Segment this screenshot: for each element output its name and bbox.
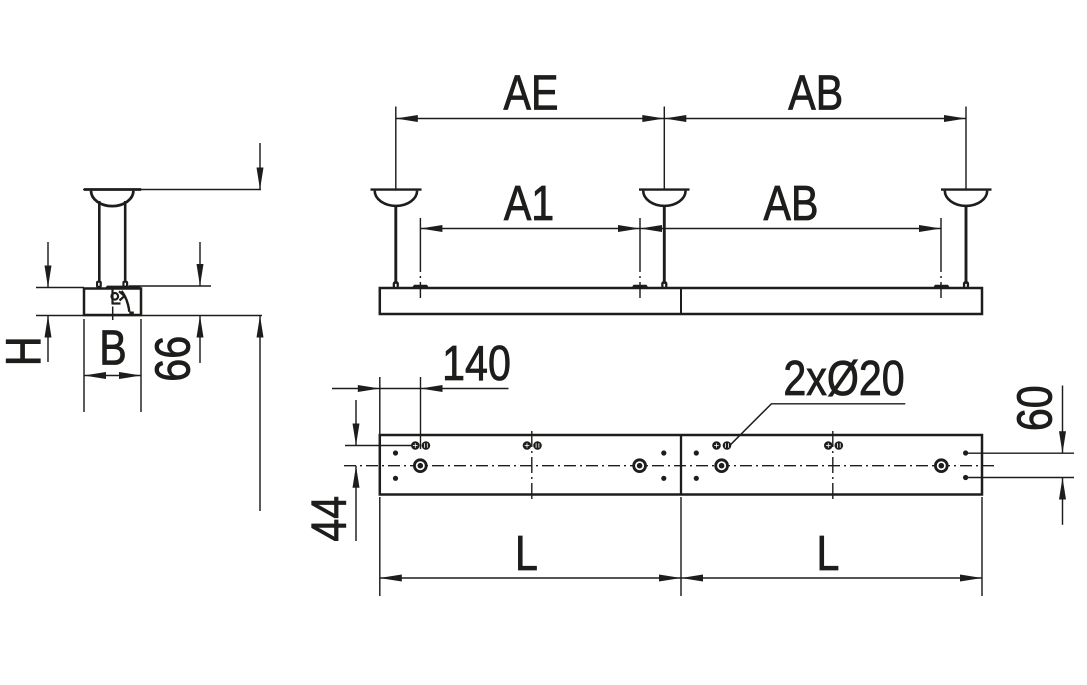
fixing extension line 2 (dash-dot) — [639, 218, 641, 298]
140 dimension line — [332, 388, 509, 390]
leader line 2xO20 — [730, 404, 905, 445]
svg-text:66: 66 — [145, 336, 200, 382]
bar joint line — [680, 288, 682, 314]
svg-text:44: 44 — [301, 496, 356, 542]
hole pair 3 — [712, 441, 721, 450]
arrow AE left — [396, 115, 418, 122]
hole pair 4 — [824, 441, 833, 450]
cable exit centerline — [112, 307, 114, 321]
140 extension line at rect left — [379, 377, 381, 435]
fixing extension line 3 (dash-dot) — [940, 218, 942, 298]
ceiling line (side view) — [83, 189, 261, 191]
arrow L left — [380, 575, 402, 582]
dimension line 66 — [199, 242, 201, 286]
grommet 2 — [634, 460, 646, 472]
dimension line AE / AB top — [396, 118, 966, 120]
plan rectangle — [380, 435, 982, 495]
cable clamp circle — [112, 293, 119, 300]
svg-text:A1: A1 — [504, 176, 554, 231]
hole pair 2 — [523, 441, 532, 450]
arrow 44 bottom (outside) — [353, 466, 360, 488]
suspension tube left wall — [98, 201, 101, 282]
arrow A1 left — [420, 225, 442, 232]
arrow B left — [84, 372, 106, 379]
dimension line H — [47, 242, 49, 288]
canopy ceiling plate (side view) — [84, 188, 141, 191]
L extension line middle — [680, 497, 682, 596]
arrow 60 bottom (outside) — [1059, 478, 1066, 500]
extension line through hole pair1 (140) — [420, 377, 422, 449]
cable clamp base line — [112, 302, 121, 304]
B dimension line — [84, 375, 141, 377]
cable clamp lever arc — [122, 291, 130, 312]
extension line canopy 2 — [663, 107, 665, 190]
svg-text:AE: AE — [504, 65, 559, 120]
luminaire bar — [380, 288, 982, 314]
suspension stem 3 — [965, 206, 968, 283]
grommets (fixing points) — [414, 460, 947, 472]
canopy ceiling plate 2 — [639, 188, 690, 190]
60 extension line bottom — [966, 477, 1075, 479]
horizontal centerline (dash-dot) — [344, 465, 995, 467]
hole pair white details — [413, 445, 418, 447]
vertical centerline module1 holes — [531, 431, 533, 503]
fixing bump 3 — [933, 285, 950, 288]
arrow B right — [119, 372, 141, 379]
L extension line left — [379, 497, 381, 596]
B extension line left — [83, 319, 85, 412]
vertical centerline module2 holes — [832, 431, 834, 503]
dimension line A1 / AB bottom — [420, 228, 941, 230]
end dots — [393, 450, 968, 481]
arrow 66 bottom — [197, 316, 204, 338]
svg-text:60: 60 — [1007, 385, 1062, 431]
60 extension line top — [966, 452, 1075, 454]
grommet 3 — [716, 460, 728, 472]
tube foot left — [96, 281, 102, 288]
svg-text:B: B — [99, 320, 126, 375]
suspension stem 2 — [663, 206, 666, 283]
arrow L middle pair — [659, 575, 681, 582]
fixing extension line 1 (dash-dot) — [419, 218, 421, 298]
extension line top of profile (H) — [36, 287, 84, 289]
arrow AB right — [944, 115, 966, 122]
hole pairs (2xO20) — [411, 441, 843, 450]
svg-text:AB: AB — [764, 176, 819, 231]
svg-text:L: L — [515, 526, 538, 581]
extension line top of plate (66) — [129, 285, 211, 287]
svg-text:AB: AB — [788, 65, 843, 120]
arrow H top — [45, 266, 52, 288]
canopy ceiling plate 1 — [371, 188, 422, 190]
arrow 44 top (outside) — [353, 424, 360, 446]
extension line canopy 3 — [965, 107, 967, 190]
fixing bump 2 — [632, 285, 649, 288]
canopy dome 3 — [945, 191, 987, 206]
cable clamp beak — [119, 291, 125, 300]
arrow H bottom — [45, 316, 52, 338]
grommet 1 — [414, 460, 426, 472]
arrow AB2 right — [919, 225, 941, 232]
cable clamp lever foot — [129, 312, 134, 315]
svg-text:H: H — [0, 336, 51, 366]
canopy dome 1 — [375, 191, 417, 206]
suspension tube right wall — [124, 201, 127, 282]
overall pendant dimension line — [259, 143, 261, 190]
dots module1 right — [661, 450, 666, 455]
arrow 60 top (outside) — [1059, 431, 1066, 453]
canopy dome (side view) — [91, 191, 133, 206]
arrow 140 left (outside) — [358, 385, 380, 392]
arrow AE right / AB left pair — [642, 115, 664, 122]
dots right end — [963, 450, 968, 455]
stem foot 3 — [963, 281, 969, 288]
L extension line right — [981, 497, 983, 596]
stem foot 1 — [393, 281, 399, 288]
profile cross-section rectangle — [84, 289, 141, 316]
dots left end — [393, 450, 398, 455]
hole pair 1 — [411, 441, 420, 450]
mounting plate on profile — [104, 286, 141, 290]
svg-text:140: 140 — [442, 336, 511, 391]
cable clamp wall — [111, 290, 113, 304]
44 extension line top — [345, 445, 411, 447]
fixing bump 1 — [412, 285, 429, 288]
arrow 140 right (outside) — [421, 385, 443, 392]
extension line bottom of profile (long) — [36, 315, 262, 317]
stem foot 2 — [661, 281, 667, 288]
svg-text:2xØ20: 2xØ20 — [783, 351, 904, 406]
L dimension line — [380, 577, 982, 579]
arrow pendant bottom — [257, 316, 264, 338]
plan joint line — [680, 435, 682, 495]
arrow L right — [960, 575, 982, 582]
svg-text:L: L — [817, 526, 840, 581]
arrow A1 right / AB2 left pair — [618, 225, 640, 232]
dots module2 left — [694, 450, 699, 455]
extension line canopy 1 — [395, 107, 397, 190]
B extension line right — [140, 319, 142, 412]
arrow pendant top — [257, 168, 264, 190]
suspension stem 1 — [394, 206, 397, 283]
arrow 66 top — [197, 264, 204, 286]
60 dimension line — [1062, 386, 1064, 454]
grommet 4 — [935, 460, 947, 472]
tube foot right — [122, 281, 128, 288]
canopy dome 2 — [643, 191, 685, 206]
44 dimension line — [355, 400, 357, 446]
canopy ceiling plate 3 — [941, 188, 992, 190]
